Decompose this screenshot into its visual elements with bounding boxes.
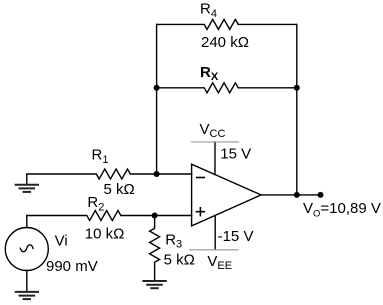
wire output	[261, 194, 320, 196]
VEE rail bar	[189, 249, 239, 251]
svg-text:-15 V: -15 V	[218, 228, 254, 245]
wire Vi to R2	[26, 216, 28, 228]
svg-text:5 kΩ: 5 kΩ	[164, 252, 195, 269]
source Vi	[5, 228, 48, 271]
node inverting input	[154, 171, 160, 177]
node RX right	[294, 85, 300, 91]
resistor R2	[27, 211, 192, 221]
node junction dots	[152, 85, 324, 219]
op-amp minus sign	[196, 177, 205, 179]
ground (R3)	[142, 281, 166, 288]
wire VEE	[214, 216, 216, 250]
VCC rail bar	[191, 141, 239, 143]
ground (R1 left)	[15, 174, 39, 192]
resistor R1	[27, 169, 192, 179]
wire top loop left vertical	[156, 24, 158, 174]
svg-text:240 kΩ: 240 kΩ	[201, 34, 249, 51]
svg-text:15 V: 15 V	[220, 145, 251, 162]
op-amp plus sign	[196, 207, 205, 216]
svg-text:5 kΩ: 5 kΩ	[104, 181, 135, 198]
resistor R4	[157, 19, 297, 29]
sine symbol	[20, 245, 33, 252]
wire top loop right vertical	[296, 24, 298, 195]
node output junction	[294, 192, 300, 198]
resistor R3	[150, 216, 160, 282]
node output terminal	[318, 192, 324, 198]
svg-text:990 mV: 990 mV	[46, 258, 98, 275]
node RX left	[154, 85, 160, 91]
svg-text:Vi: Vi	[55, 232, 68, 249]
resistor RX	[157, 83, 297, 93]
op-amp U1	[192, 164, 262, 226]
node noninverting input	[152, 213, 158, 219]
svg-text:10 kΩ: 10 kΩ	[85, 226, 125, 243]
wire Vi to ground	[26, 271, 28, 292]
wire VCC	[214, 142, 216, 175]
ground (Vi)	[15, 292, 39, 299]
